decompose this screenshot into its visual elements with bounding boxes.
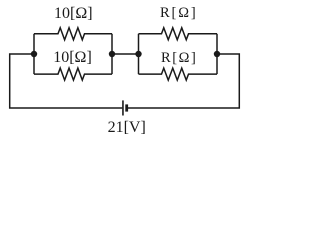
wire outer loop right (from battery along bottom and up to node D) (127, 54, 239, 108)
resistor R[Ω] bottom-right (zigzag) (139, 68, 218, 80)
node B junction dot (109, 51, 115, 57)
wire left pair left vertical (33, 34, 35, 74)
wire right pair right vertical (216, 34, 218, 74)
svg-text:R[Ω]: R[Ω] (160, 5, 198, 21)
svg-text:10[Ω]: 10[Ω] (53, 49, 92, 66)
wire right pair left vertical (138, 34, 140, 74)
node D junction dot (214, 51, 220, 57)
battery 21[V] long plate (positive) (122, 100, 124, 115)
wire left pair right vertical (111, 34, 113, 74)
node A junction dot (31, 51, 37, 57)
node C junction dot (135, 51, 141, 57)
resistor 10[Ω] top-left (zigzag) (34, 28, 112, 40)
svg-text:R[Ω]: R[Ω] (161, 50, 198, 66)
battery 21[V] short plate (negative) (125, 104, 128, 111)
wire outer loop left (from node A down and along bottom to battery) (10, 54, 123, 108)
svg-text:10[Ω]: 10[Ω] (54, 5, 93, 22)
resistor 10[Ω] bottom-left (zigzag) (34, 68, 112, 80)
resistor R[Ω] top-right (zigzag) (139, 28, 218, 40)
wire middle between pairs (node B to node C) (112, 53, 139, 55)
svg-text:21[V]: 21[V] (108, 119, 146, 136)
